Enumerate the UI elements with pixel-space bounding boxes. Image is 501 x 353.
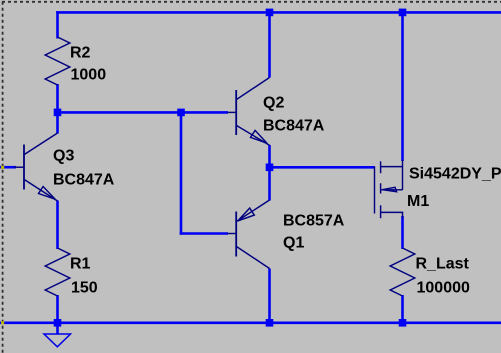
junction bottom rail / R_Last [399,319,407,327]
node marker bottom rail open end [1,321,4,324]
wire Q3 base stub to left border [0,166,16,169]
transistor Q1 (PNP BC857A) [227,200,270,269]
page border top dashed [2,1,501,3]
junction node row / feedback column [177,109,185,117]
junction top rail / M1 drain [399,9,407,17]
svg-text:Q3: Q3 [53,148,74,165]
junction gate row / Q2 emitter [266,164,274,172]
resistor R_Last [390,248,415,296]
wire bottom rail [0,321,501,324]
transistor Q3 (NPN BC847A) [14,133,58,201]
transistor Q2 (NPN BC847A) [227,78,270,146]
wire M1 drain vertical [401,12,404,161]
wire vertical feedback column [180,112,183,234]
page border left dashed [2,2,4,353]
wire R_Last bottom to bottom rail [401,295,404,324]
wire to Q1 base [180,232,228,235]
svg-text:1000: 1000 [71,67,107,84]
svg-text:150: 150 [71,280,98,297]
wire R2 bottom to node row [56,84,59,114]
wire Q3 emitter to R1 [56,201,59,250]
wire R1 bottom to ground rail [56,295,59,324]
svg-text:100000: 100000 [417,280,470,297]
junction bottom rail / Q1 collector [266,319,274,327]
junction node row / R2-Q3 [54,109,62,117]
wire Q2 collector vertical [268,12,271,77]
svg-text:BC847A: BC847A [263,118,325,135]
wire ground stem [56,323,59,335]
svg-text:R_Last: R_Last [416,256,470,273]
svg-text:R1: R1 [70,256,91,273]
wire M1 source to R_Last [401,216,404,249]
svg-text:BC857A: BC857A [283,213,345,230]
resistor R1 [45,248,70,296]
ground [44,334,71,347]
wire Q1 collector to bottom rail [268,269,271,325]
wire Q3 collector vertical [56,112,59,133]
wire top rail [56,11,501,14]
svg-text:Q2: Q2 [263,95,284,112]
resistor R2 [45,37,70,85]
wire Q2 emitter / Q1 emitter vertical [268,145,271,201]
svg-text:M1: M1 [407,193,429,210]
svg-text:Si4542DY_P: Si4542DY_P [409,166,501,183]
MOSFET M1 (Si4542DY_P) [375,160,404,218]
node marker Q3 base open end [1,166,4,169]
junction top rail / Q2 collector [266,9,274,17]
wire R2 top lead from top rail [56,11,59,38]
svg-text:Q1: Q1 [283,235,304,252]
wire node row 1 (R2/Q3 collector to Q2 base) [58,111,229,114]
svg-text:BC847A: BC847A [53,172,115,189]
wire gate row to M1 [270,166,375,169]
junction bottom rail / R1-ground [54,319,62,327]
svg-text:R2: R2 [70,45,91,62]
